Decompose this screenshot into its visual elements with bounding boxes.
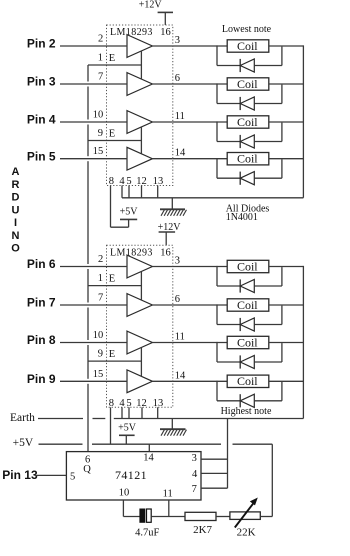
wire: enable pin 9 row of U2 <box>88 360 141 362</box>
coil L3 box <box>227 116 269 128</box>
wire: buffer U2B output to box edge <box>152 304 172 306</box>
svg-text:Coil: Coil <box>237 77 258 91</box>
wire: right jog up from diode L5 <box>281 267 283 286</box>
wire: U2 pin 5 stub <box>128 407 130 418</box>
diode L5 cathode bar <box>239 279 241 292</box>
wire: coil L6 right terminal to rail <box>269 304 304 306</box>
coil L7 box <box>227 336 269 348</box>
wire: rail for coil group 2 <box>302 266 304 419</box>
wire: output to coil L2 <box>173 83 227 85</box>
diode L2 triangle <box>240 97 254 110</box>
wire: left jog down to diode L3 <box>216 121 218 141</box>
wire: buffer U1D output to box edge <box>152 158 172 160</box>
buffer triangle U1A <box>127 35 152 58</box>
diode L7 cathode bar <box>239 355 241 368</box>
wire: +12V rail for coil group 1 <box>302 45 304 197</box>
wire: buffer U1B output to box edge <box>152 83 172 85</box>
svg-text:1: 1 <box>98 53 103 64</box>
wire: +5V symbol stem (U2) <box>125 435 127 444</box>
svg-text:15: 15 <box>93 369 104 380</box>
svg-text:15: 15 <box>93 146 104 157</box>
svg-text:8: 8 <box>109 176 114 187</box>
coil L5 box <box>227 260 269 272</box>
wire: diode L6 anode-side horizontal <box>217 324 240 326</box>
wire: buffer U1B input inside box <box>107 83 128 85</box>
wire: right jog up from diode L2 <box>281 85 283 104</box>
wire: enable pin 1 row of U1 <box>88 64 141 66</box>
wire: U1 pin 8 to +5V stem <box>111 226 129 228</box>
wire: diode L8 to right jog <box>254 400 282 402</box>
wire: output to coil L1 <box>173 45 227 47</box>
wire: right jog up from diode L4 <box>281 159 283 178</box>
svg-text:+5V: +5V <box>13 437 34 449</box>
wire: U2 pin 13 stub <box>157 407 159 418</box>
driver IC U1 LM18293 dashed outline <box>107 25 173 186</box>
wire: U2 pin 4 stub <box>121 407 123 418</box>
svg-text:Lowest note: Lowest note <box>222 24 272 35</box>
svg-text:14: 14 <box>175 370 186 381</box>
svg-text:Coil: Coil <box>237 335 258 349</box>
potentiometer VR1 arrow <box>235 501 255 528</box>
svg-text:Pin 5: Pin 5 <box>27 149 56 163</box>
wire: +12V stem to U2 pin 16 <box>165 232 167 245</box>
wire: U3 pin 4 to ground line <box>201 472 228 474</box>
svg-text:11: 11 <box>175 111 185 122</box>
svg-text:Pin 9: Pin 9 <box>27 372 56 386</box>
svg-text:7: 7 <box>192 484 197 495</box>
svg-text:7: 7 <box>98 293 103 304</box>
svg-text:1N4001: 1N4001 <box>226 212 258 223</box>
diode L3 cathode bar <box>239 135 241 148</box>
svg-text:3: 3 <box>192 453 197 464</box>
svg-text:10: 10 <box>119 488 130 499</box>
wire: coil L7 right terminal to rail <box>269 342 304 344</box>
svg-text:74121: 74121 <box>115 468 147 482</box>
wire: diode L2 to right jog <box>254 103 282 105</box>
svg-text:Pin 3: Pin 3 <box>27 75 56 89</box>
wire: buffer U1A input inside box <box>107 45 128 47</box>
svg-text:R: R <box>12 179 20 191</box>
wire: right jog up from diode L6 <box>281 306 283 325</box>
svg-text:16: 16 <box>160 247 171 258</box>
svg-text:Coil: Coil <box>237 374 258 388</box>
svg-text:9: 9 <box>98 128 103 139</box>
wire: output to coil L8 <box>173 380 227 382</box>
wire: diode L2 anode-side horizontal <box>217 103 240 105</box>
wire: output to coil L3 <box>173 121 227 123</box>
wire: left jog down to diode L4 <box>216 158 218 178</box>
svg-text:2K7: 2K7 <box>193 524 212 536</box>
coil L6 box <box>227 299 269 311</box>
svg-text:A: A <box>12 166 20 178</box>
svg-text:5: 5 <box>70 471 75 482</box>
wire: 74121 Q output vertical line to enable pins (with crossing gaps) <box>87 65 89 82</box>
wire: right jog up from diode L3 <box>281 123 283 142</box>
wire: diode L8 anode-side horizontal <box>217 400 240 402</box>
wire: potentiometer to +5V riser <box>260 516 272 518</box>
svg-text:Highest note: Highest note <box>221 406 272 417</box>
wire: output to coil L6 <box>173 304 227 306</box>
svg-text:6: 6 <box>175 294 180 305</box>
wire: coil L8 right terminal to rail <box>269 380 304 382</box>
wire: riser from pot to +5V row <box>271 444 273 516</box>
wire: enable stub into buffers U2 <box>140 271 142 300</box>
wire: left jog down to diode L2 <box>216 83 218 103</box>
wire: diode L6 to right jog <box>254 324 282 326</box>
wire: Arduino Pin 4 to U1 <box>60 121 107 123</box>
wire: coil L3 right terminal to rail <box>269 121 304 123</box>
wire: R1 to potentiometer <box>216 516 230 518</box>
wire: left jog down to diode L8 <box>216 381 218 401</box>
one-shot U3 74121 box <box>66 452 201 500</box>
svg-text:Q: Q <box>83 464 91 475</box>
svg-text:E: E <box>109 349 115 360</box>
capacitor C1 4.7uF solid plate <box>140 509 145 522</box>
svg-text:Coil: Coil <box>237 152 258 166</box>
potentiometer VR1 22K box <box>230 512 260 520</box>
svg-text:11: 11 <box>163 488 173 499</box>
buffer triangle U1D <box>127 147 152 170</box>
coil L4 box <box>227 153 269 165</box>
wire: diode L3 anode-side horizontal <box>217 141 240 143</box>
wire: buffer U2D input inside box <box>107 380 128 382</box>
diode L8 triangle <box>240 394 254 407</box>
svg-text:Pin 2: Pin 2 <box>27 37 56 51</box>
svg-text:Pin 4: Pin 4 <box>27 113 56 127</box>
svg-text:O: O <box>11 243 20 255</box>
svg-text:3: 3 <box>175 256 180 267</box>
wire: U2 pin 12 stub <box>141 407 143 418</box>
driver IC U2 LM18293 dashed outline <box>107 245 173 407</box>
diode L6 triangle <box>240 318 254 331</box>
wire: left jog down to diode L6 <box>216 304 218 324</box>
wire: diode L5 to right jog <box>254 285 282 287</box>
wire: Arduino Pin 5 to U1 <box>60 158 107 160</box>
svg-text:Pin 13: Pin 13 <box>2 468 38 482</box>
buffer triangle U2A <box>127 255 152 278</box>
wire: U1 pin 13 stub <box>157 186 159 198</box>
svg-text:Earth: Earth <box>10 412 35 424</box>
diode L7 triangle <box>240 355 254 368</box>
wire: left jog down to diode L1 <box>216 45 218 65</box>
wire: U3 pin 7 to ground line <box>201 487 228 489</box>
svg-text:4: 4 <box>192 469 198 480</box>
+12V supply bar (U2) <box>159 231 176 233</box>
wire: buffer U2D output to box edge <box>152 380 172 382</box>
wire: +5V row (with crossing hops) <box>39 443 83 445</box>
wire: left jog down to diode L5 <box>216 266 218 286</box>
diode L1 cathode bar <box>239 59 241 72</box>
resistor R1 2K7 box <box>185 512 216 520</box>
wire: output to coil L7 <box>173 342 227 344</box>
wire: Arduino Pin 9 to U2 <box>60 380 107 382</box>
wire: U1 pin 5 stub <box>128 186 130 198</box>
svg-text:2: 2 <box>98 254 103 265</box>
wire: output to coil L4 <box>173 158 227 160</box>
ground symbol (group 2) hatching <box>161 430 164 436</box>
wire: right jog up from diode L7 <box>281 343 283 362</box>
capacitor C1 4.7uF outline plate <box>147 509 152 522</box>
coil L8 box <box>227 375 269 387</box>
coil L1 box <box>227 40 269 52</box>
diode L6 cathode bar <box>239 318 241 331</box>
svg-text:+5V: +5V <box>120 206 139 217</box>
wire: U1 ground bus to rail <box>122 197 303 199</box>
wire: buffer U1C input inside box <box>107 121 128 123</box>
svg-text:Pin 6: Pin 6 <box>27 257 56 271</box>
wire: coil L4 right terminal to rail <box>269 158 304 160</box>
wire: +5V symbol stem (U1) <box>128 219 130 227</box>
wire: buffer U2A output to box edge <box>152 266 172 268</box>
wire: U1 pin 12 stub <box>141 186 143 198</box>
wire: earth bus (with crossing hops) <box>38 418 83 420</box>
wire: diode L7 anode-side horizontal <box>217 361 240 363</box>
ground symbol (group 1) hatching <box>161 210 164 216</box>
svg-text:4.7uF: 4.7uF <box>135 527 159 538</box>
svg-text:N: N <box>12 230 20 242</box>
svg-text:Coil: Coil <box>237 298 258 312</box>
wire: U1 pin 4 stub <box>121 186 123 198</box>
svg-text:I: I <box>14 217 17 229</box>
wire: diode L7 to right jog <box>254 361 282 363</box>
wire: diode L1 to right jog <box>254 65 282 67</box>
svg-text:9: 9 <box>98 349 103 360</box>
wire: right jog up from diode L8 <box>281 382 283 401</box>
svg-text:Pin 7: Pin 7 <box>27 296 56 310</box>
wire: U3 pin 14 stub to +5V row <box>148 444 150 451</box>
wire: coil L2 right terminal to rail <box>269 83 304 85</box>
svg-text:1: 1 <box>98 273 103 284</box>
ground symbol (group 1) bar <box>160 208 185 210</box>
svg-text:10: 10 <box>93 110 104 121</box>
svg-text:8: 8 <box>109 398 114 409</box>
wire: ground stem (group 2) <box>171 419 173 430</box>
svg-text:+5V: +5V <box>118 423 137 434</box>
wire: U3 pin 11 stub <box>168 500 170 517</box>
wire: enable pin 9 row of U1 <box>88 140 141 142</box>
coil L2 box <box>227 78 269 90</box>
wire: Arduino Pin 3 to U1 <box>60 83 107 85</box>
wire: buffer U1A output to box edge <box>152 45 172 47</box>
wire: enable stub into buffers U2 <box>140 347 142 376</box>
buffer triangle U2B <box>127 294 152 317</box>
wire: enable pin 1 row of U2 <box>88 285 141 287</box>
diode L4 triangle <box>240 172 254 185</box>
wire: diode L5 anode-side horizontal <box>217 285 240 287</box>
ground symbol (group 2) bar <box>160 428 186 430</box>
wire: Arduino Pin 6 to U2 <box>60 266 107 268</box>
wire: enable stub into buffers U1 <box>140 51 142 79</box>
wire: U3 pin 3 to ground line <box>201 458 228 460</box>
wire: enable stub into buffers U1 <box>140 127 142 154</box>
svg-text:+12V: +12V <box>139 0 163 11</box>
svg-text:Coil: Coil <box>237 115 258 129</box>
svg-text:3: 3 <box>175 35 180 46</box>
svg-text:E: E <box>109 274 115 285</box>
diode L1 triangle <box>240 59 254 72</box>
svg-text:16: 16 <box>160 27 171 38</box>
svg-text:E: E <box>109 129 115 140</box>
wire: Arduino Pin 13 to U3 pin 5 <box>35 474 67 476</box>
wire: diode L3 to right jog <box>254 141 282 143</box>
+12V supply bar (top) <box>158 11 173 13</box>
wire: U1 pin 8 stub down <box>110 186 112 228</box>
wire: coil L1 right terminal to rail <box>269 45 304 47</box>
wire: output to coil L5 <box>173 266 227 268</box>
wire: U3 pins 3-4-7 vertical to earth bus <box>227 419 229 489</box>
+5V supply bar (U2) <box>119 434 135 436</box>
diode L3 triangle <box>240 135 254 148</box>
svg-text:2: 2 <box>98 34 103 45</box>
+5V supply bar (U1) <box>120 218 137 220</box>
buffer triangle U2C <box>127 331 152 354</box>
wire: right jog up from diode L1 <box>281 47 283 66</box>
wire: Arduino Pin 8 to U2 <box>60 342 107 344</box>
wire: pin 10 to capacitor <box>123 516 139 518</box>
svg-text:22K: 22K <box>237 527 256 539</box>
wire: Arduino Pin 2 to U1 <box>60 45 107 47</box>
svg-text:6: 6 <box>175 73 180 84</box>
wire: buffer U2C input inside box <box>107 342 128 344</box>
buffer triangle U1B <box>127 73 152 96</box>
svg-text:E: E <box>109 53 115 64</box>
buffer triangle U1C <box>127 111 152 134</box>
diode L4 cathode bar <box>239 172 241 185</box>
svg-text:10: 10 <box>93 330 104 341</box>
wire: buffer U1C output to box edge <box>152 121 172 123</box>
wire: buffer U2C output to box edge <box>152 342 172 344</box>
svg-text:Coil: Coil <box>237 39 258 53</box>
wire: U2 pin 8 stub to +5V row <box>110 407 112 444</box>
wire: diode L4 anode-side horizontal <box>217 177 240 179</box>
wire: ground stem (group 1) <box>171 198 173 210</box>
svg-text:14: 14 <box>175 148 186 159</box>
svg-text:Pin 8: Pin 8 <box>27 333 56 347</box>
buffer triangle U2D <box>127 370 152 393</box>
wire: capacitor to R1, junction with pin 11 <box>151 516 185 518</box>
wire: buffer U2A input inside box <box>107 266 128 268</box>
wire: +12V stem to U1 pin 16 <box>164 12 166 25</box>
wire: buffer U1D input inside box <box>107 158 128 160</box>
diode L2 cathode bar <box>239 97 241 110</box>
svg-text:11: 11 <box>175 332 185 343</box>
wire: diode L1 anode-side horizontal <box>217 65 240 67</box>
diode L5 triangle <box>240 279 254 292</box>
svg-text:U: U <box>12 204 20 216</box>
svg-text:D: D <box>12 192 20 204</box>
wire: U3 pin 10 stub <box>122 500 124 517</box>
wire: Arduino Pin 7 to U2 <box>60 304 107 306</box>
wire: diode L4 to right jog <box>254 177 282 179</box>
diode L8 cathode bar <box>239 394 241 407</box>
wire: buffer U2B input inside box <box>107 304 128 306</box>
wire: left jog down to diode L7 <box>216 342 218 362</box>
wire: coil L5 right terminal to rail <box>269 266 304 268</box>
svg-text:7: 7 <box>98 72 103 83</box>
svg-text:Coil: Coil <box>237 259 258 273</box>
svg-text:14: 14 <box>143 452 154 463</box>
